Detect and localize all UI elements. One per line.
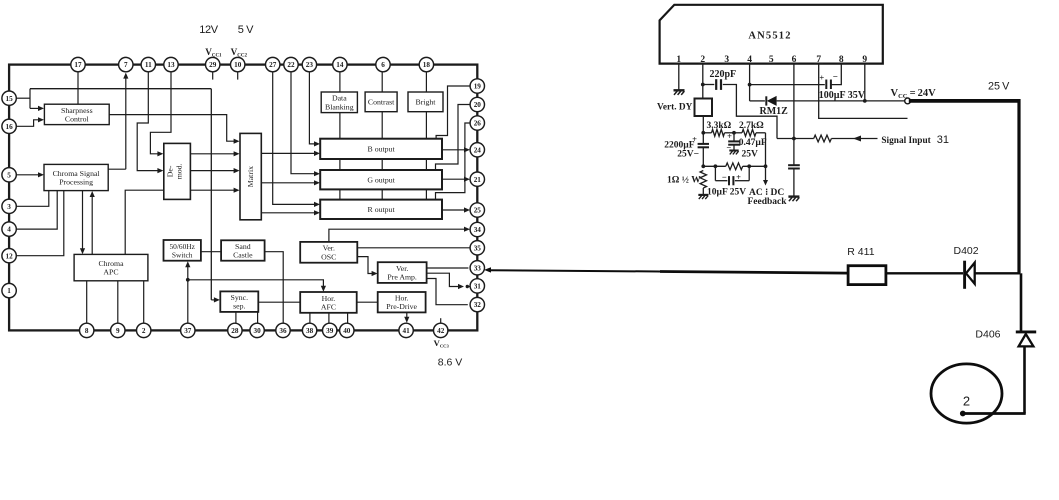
svg-text:+: + bbox=[736, 172, 741, 182]
svg-text:19: 19 bbox=[474, 83, 482, 91]
svg-text:D402: D402 bbox=[954, 245, 979, 257]
svg-text:15: 15 bbox=[6, 95, 14, 103]
svg-text:17: 17 bbox=[74, 61, 82, 69]
svg-text:R output: R output bbox=[368, 205, 396, 214]
svg-text:5: 5 bbox=[7, 171, 11, 179]
svg-text:42: 42 bbox=[437, 327, 445, 335]
svg-text:−: − bbox=[722, 172, 727, 182]
svg-text:9: 9 bbox=[116, 327, 120, 335]
svg-text:16: 16 bbox=[6, 123, 14, 131]
svg-text:1: 1 bbox=[7, 287, 11, 295]
svg-text:D406: D406 bbox=[975, 329, 1000, 341]
svg-text:31: 31 bbox=[937, 134, 949, 146]
svg-text:Signal Input: Signal Input bbox=[881, 136, 931, 146]
svg-text:24: 24 bbox=[474, 146, 482, 154]
svg-text:21: 21 bbox=[474, 176, 482, 184]
svg-text:−: − bbox=[726, 143, 731, 153]
svg-text:39: 39 bbox=[326, 327, 334, 335]
svg-text:22: 22 bbox=[287, 61, 295, 69]
svg-text:De-: De- bbox=[166, 165, 175, 177]
svg-text:25V−: 25V− bbox=[677, 150, 699, 160]
svg-text:4: 4 bbox=[7, 226, 11, 234]
svg-text:Feedback: Feedback bbox=[748, 197, 788, 207]
svg-text:10: 10 bbox=[234, 61, 242, 69]
svg-text:29: 29 bbox=[209, 61, 217, 69]
svg-text:37: 37 bbox=[184, 327, 192, 335]
svg-text:Bright: Bright bbox=[416, 98, 437, 107]
svg-text:APC: APC bbox=[103, 268, 118, 277]
svg-text:Pre Amp.: Pre Amp. bbox=[387, 273, 417, 282]
svg-text:2.7kΩ: 2.7kΩ bbox=[739, 121, 764, 131]
svg-text:−: − bbox=[833, 71, 838, 81]
svg-text:B output: B output bbox=[368, 145, 396, 154]
svg-text:11: 11 bbox=[145, 61, 152, 69]
svg-text:1Ω ½ W: 1Ω ½ W bbox=[667, 176, 701, 186]
svg-text:35: 35 bbox=[474, 244, 482, 252]
svg-text:25 V: 25 V bbox=[988, 81, 1010, 93]
svg-text:26: 26 bbox=[474, 120, 482, 128]
svg-text:13: 13 bbox=[167, 61, 175, 69]
svg-text:20: 20 bbox=[474, 101, 482, 109]
svg-text:Processing: Processing bbox=[59, 178, 93, 187]
svg-text:25: 25 bbox=[474, 207, 482, 215]
svg-text:AFC: AFC bbox=[321, 302, 336, 311]
svg-text:8: 8 bbox=[85, 327, 89, 335]
svg-text:RM1Z: RM1Z bbox=[760, 106, 789, 117]
svg-text:8.6 V: 8.6 V bbox=[438, 357, 463, 369]
svg-text:G output: G output bbox=[367, 175, 395, 184]
svg-text:Blanking: Blanking bbox=[325, 102, 354, 111]
svg-text:34: 34 bbox=[474, 226, 482, 234]
svg-text:2: 2 bbox=[963, 394, 970, 409]
svg-text:38: 38 bbox=[306, 327, 314, 335]
svg-text:Matrix: Matrix bbox=[246, 166, 255, 187]
svg-text:12: 12 bbox=[6, 252, 14, 260]
svg-text:28: 28 bbox=[231, 327, 239, 335]
svg-text:3.3kΩ: 3.3kΩ bbox=[707, 121, 732, 131]
svg-text:14: 14 bbox=[336, 61, 344, 69]
svg-text:36: 36 bbox=[279, 327, 287, 335]
svg-text:+: + bbox=[819, 72, 824, 82]
svg-text:40: 40 bbox=[343, 327, 351, 335]
svg-text:100µF 35V: 100µF 35V bbox=[819, 90, 866, 101]
svg-text:mod.: mod. bbox=[175, 163, 184, 179]
svg-text:5 V: 5 V bbox=[238, 24, 254, 36]
svg-text:25V: 25V bbox=[742, 149, 759, 159]
svg-text:Contrast: Contrast bbox=[368, 98, 395, 107]
svg-text:3: 3 bbox=[7, 203, 11, 211]
svg-text:41: 41 bbox=[403, 327, 411, 335]
svg-text:Control: Control bbox=[65, 114, 90, 123]
svg-text:AN5512: AN5512 bbox=[748, 30, 791, 41]
svg-text:27: 27 bbox=[269, 61, 277, 69]
svg-text:Switch: Switch bbox=[172, 250, 193, 259]
svg-text:32: 32 bbox=[474, 301, 482, 309]
svg-text:VCC = 24V: VCC = 24V bbox=[891, 88, 937, 100]
svg-text:12V: 12V bbox=[199, 24, 218, 36]
svg-text:7: 7 bbox=[124, 61, 128, 69]
svg-text:6: 6 bbox=[381, 61, 385, 69]
svg-text:31: 31 bbox=[474, 283, 482, 291]
svg-text:18: 18 bbox=[423, 61, 431, 69]
svg-text:23: 23 bbox=[306, 61, 314, 69]
svg-text:220pF: 220pF bbox=[710, 69, 737, 80]
svg-text:R 411: R 411 bbox=[847, 246, 874, 258]
svg-text:Vert. DY: Vert. DY bbox=[657, 103, 693, 113]
svg-text:2: 2 bbox=[142, 327, 146, 335]
svg-text:OSC: OSC bbox=[321, 252, 336, 261]
svg-text:30: 30 bbox=[254, 327, 262, 335]
svg-text:Castle: Castle bbox=[233, 251, 253, 260]
svg-text:0.47µF: 0.47µF bbox=[739, 138, 767, 148]
svg-text:+: + bbox=[727, 131, 732, 141]
svg-text:Pre-Drive: Pre-Drive bbox=[386, 302, 417, 311]
svg-text:33: 33 bbox=[474, 264, 482, 272]
svg-text:sep.: sep. bbox=[233, 302, 245, 311]
svg-text:10µF 25V: 10µF 25V bbox=[707, 188, 746, 198]
